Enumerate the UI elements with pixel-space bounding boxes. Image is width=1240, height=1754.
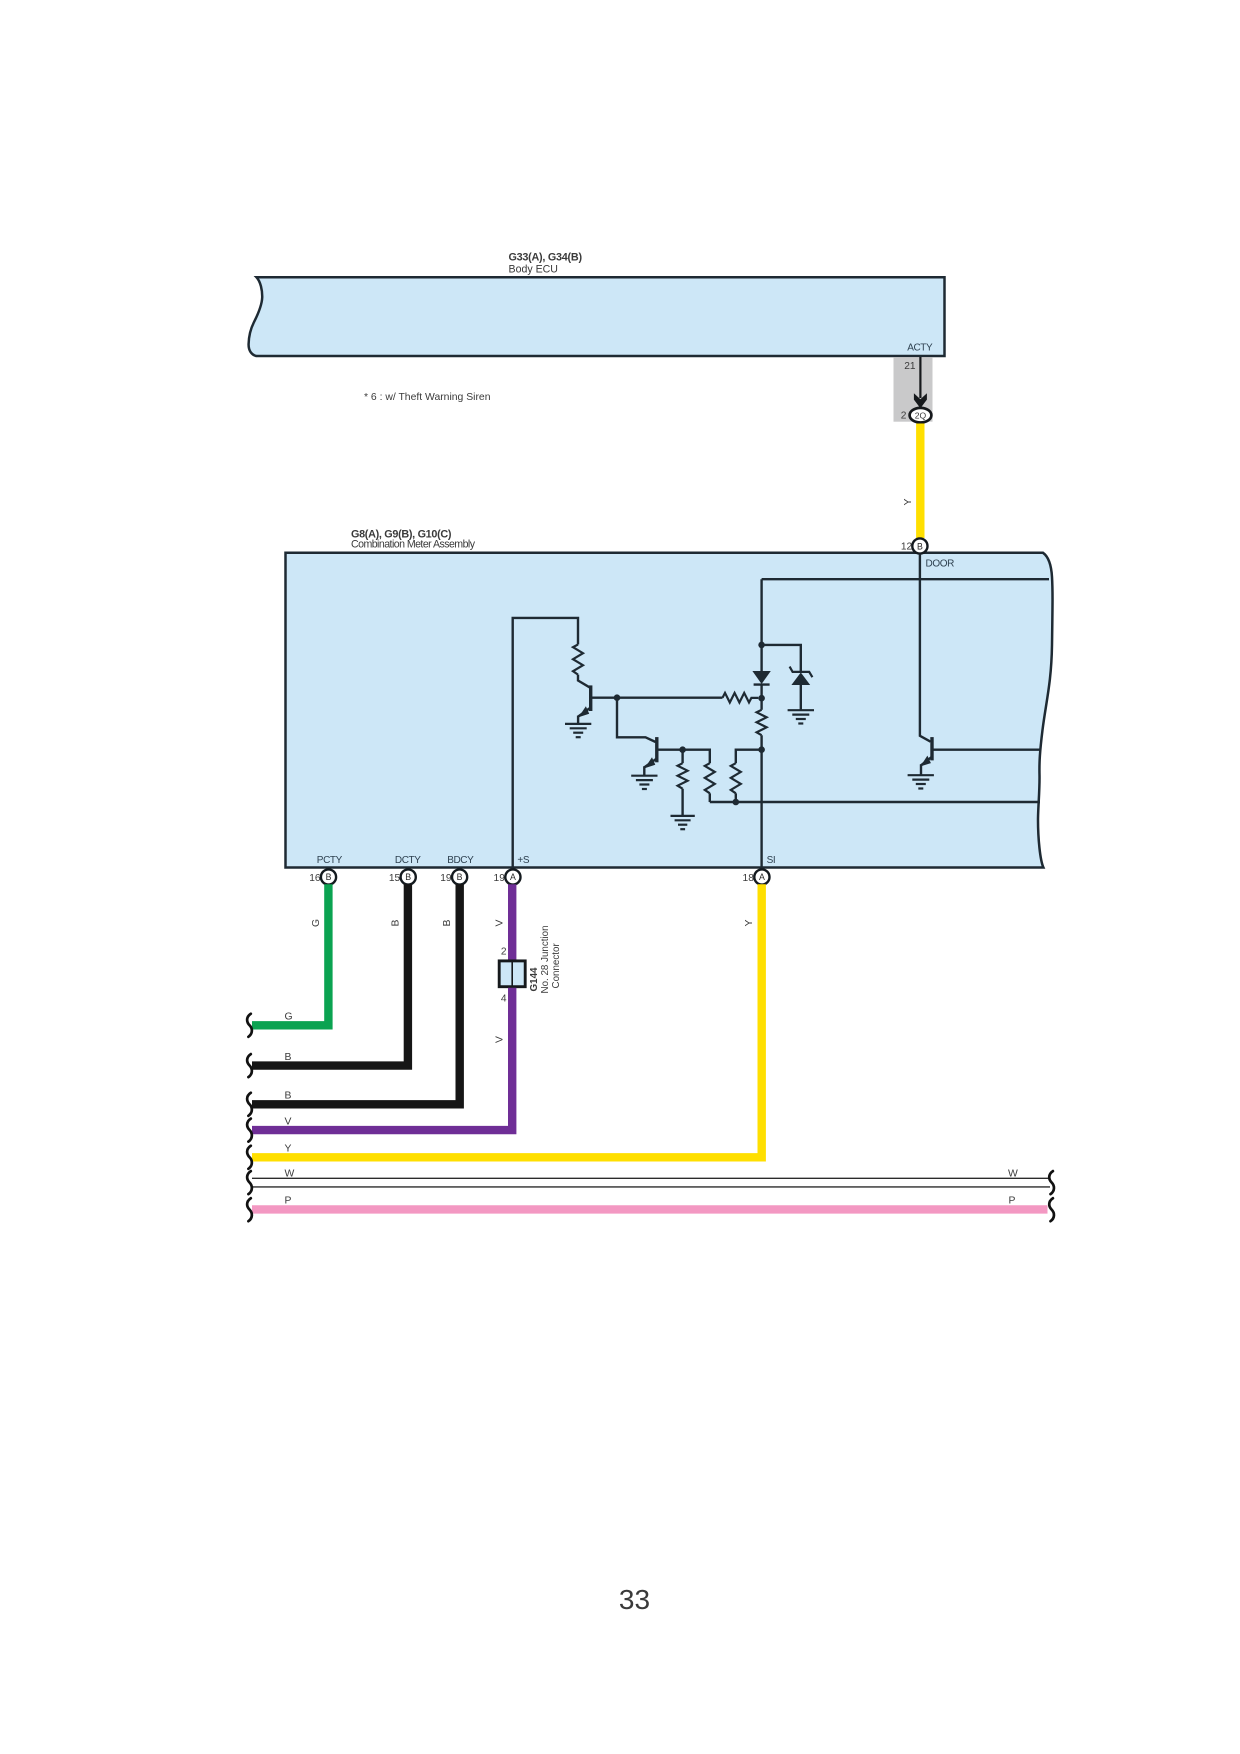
svg-text:B: B	[405, 872, 411, 882]
wire B (black) DCTY to left break	[252, 884, 408, 1065]
svg-text:No. 28 Junction: No. 28 Junction	[540, 925, 551, 993]
svg-text:+S: +S	[517, 855, 529, 866]
svg-text:B: B	[457, 872, 463, 882]
ground (Q3 emitter)	[908, 775, 934, 788]
svg-text:15: 15	[389, 873, 401, 884]
svg-text:33: 33	[619, 1584, 650, 1615]
svg-text:W: W	[1008, 1168, 1018, 1179]
ground (Q1 emitter)	[565, 724, 591, 737]
svg-text:ACTY: ACTY	[907, 342, 933, 353]
resistor R2 (to ground)	[678, 763, 688, 789]
wire V (violet) +S upper segment	[508, 884, 516, 959]
svg-text:Combination Meter Assembly: Combination Meter Assembly	[351, 539, 476, 551]
terminal 19(B) BDCY	[440, 869, 467, 884]
wire: node over to R3 top	[683, 750, 710, 764]
break squiggle (B wire 2)	[247, 1093, 252, 1116]
junction dot at SI/zener branch	[758, 642, 765, 649]
wire: base node down/over to Q2 collector	[617, 698, 656, 742]
svg-text:W: W	[285, 1168, 295, 1179]
svg-text:B: B	[390, 919, 401, 926]
ground (R2)	[671, 816, 695, 829]
svg-text:12: 12	[901, 541, 913, 552]
wire: 12(B) vertical into box down to Q3 collector	[920, 554, 931, 742]
svg-text:V: V	[495, 919, 506, 926]
break squiggle (Y wire)	[247, 1146, 252, 1169]
svg-text:B: B	[285, 1091, 292, 1102]
break squiggle (P wire right)	[1049, 1198, 1054, 1221]
svg-text:Connector: Connector	[551, 943, 562, 989]
svg-text:Body ECU: Body ECU	[509, 263, 558, 275]
wire: D1 cathode to dot	[760, 685, 762, 710]
wire: SI main vertical upper segment (corner at DOOR line)	[760, 579, 762, 671]
svg-text:P: P	[1009, 1195, 1016, 1206]
transistor Q2	[644, 737, 657, 776]
break squiggle (W wire right)	[1049, 1171, 1054, 1194]
Combination Meter box (cut-away right edge)	[286, 553, 1053, 868]
svg-text:B: B	[917, 541, 923, 551]
junction connector G144 box	[499, 961, 525, 987]
ground (Q2 emitter)	[631, 776, 657, 789]
break squiggle (V wire)	[247, 1119, 252, 1142]
diode D1 (pointing down)	[752, 671, 770, 684]
svg-text:SI: SI	[767, 855, 776, 866]
svg-text:DOOR: DOOR	[926, 559, 955, 570]
break squiggle (W wire left)	[247, 1171, 252, 1194]
junction dot Q2 base node	[679, 746, 686, 753]
wire Y (yellow) from 2Q down to meter 12(B)	[916, 424, 924, 539]
svg-text:Y: Y	[285, 1144, 292, 1155]
svg-text:B: B	[285, 1052, 292, 1063]
junction dot at D1 cathode / horizontal resistor	[758, 695, 765, 702]
ground (zener)	[788, 710, 814, 723]
junction dot R4/bus	[733, 799, 740, 806]
svg-text:Y: Y	[903, 498, 914, 505]
junction dot at R5 bottom	[758, 746, 765, 753]
arrowhead chevron	[914, 393, 927, 408]
svg-text:A: A	[510, 872, 516, 882]
svg-text:B: B	[326, 872, 332, 882]
svg-text:BDCY: BDCY	[447, 855, 474, 866]
terminal 16(B) PCTY	[309, 869, 336, 884]
connector shield gray block	[894, 357, 933, 422]
terminal 19(A) +S	[494, 869, 521, 884]
svg-text:2: 2	[901, 411, 907, 422]
wire: R1 bottom to Q1 collector	[578, 675, 590, 688]
wire: base node to horizontal resistor	[617, 697, 723, 699]
wire: Q3 base to cut edge	[932, 749, 1040, 751]
wire G (green) PCTY to left break	[252, 884, 328, 1025]
svg-text:4: 4	[501, 993, 507, 1004]
connector oval 2Q	[910, 408, 932, 423]
svg-text:2Q: 2Q	[915, 410, 927, 420]
break squiggle (B wire)	[247, 1054, 252, 1077]
wire P (pink)	[252, 1205, 1048, 1213]
wire Y (yellow) SI to left break	[252, 884, 762, 1157]
resistor Rh (horizontal, base node to SI node)	[723, 693, 759, 703]
svg-text:18: 18	[743, 873, 755, 884]
wire V (violet) lower segment to left break	[252, 988, 512, 1130]
wire: SI line mid segment	[760, 735, 762, 869]
zener diode D2 (pointing up, bent bar)	[790, 667, 813, 678]
svg-text:19: 19	[440, 873, 452, 884]
wire: +S line up and over to R1	[513, 618, 578, 870]
resistor R5 (on SI line)	[757, 710, 767, 735]
wire from ACTY pin 21 (vertical arrow line)	[919, 357, 921, 398]
Body ECU box (cut-away left edge)	[249, 277, 945, 356]
wire: R3 bottom corner into bus line	[709, 793, 711, 802]
wire B (black) BDCY to left break	[252, 884, 460, 1104]
svg-text:V: V	[285, 1116, 292, 1127]
wire W (white, outlined)	[252, 1178, 1050, 1187]
wire: DOOR horizontal line to cut edge	[762, 578, 1049, 580]
svg-text:G: G	[311, 919, 322, 927]
break squiggle (G wire)	[247, 1014, 252, 1037]
wire: R4 top to SI node	[736, 750, 762, 764]
svg-text:21: 21	[904, 361, 916, 372]
svg-text:G33(A), G34(B): G33(A), G34(B)	[509, 252, 583, 264]
svg-text:Y: Y	[744, 919, 755, 926]
svg-text:V: V	[495, 1036, 506, 1043]
svg-text:A: A	[759, 872, 765, 882]
svg-text:* 6 : w/ Theft Warning Siren: * 6 : w/ Theft Warning Siren	[364, 392, 491, 403]
terminal 18(A) SI	[743, 869, 770, 884]
connector circle 12(B)	[912, 538, 927, 553]
resistor R3	[705, 763, 715, 793]
transistor Q3 (door signal)	[920, 737, 932, 775]
wire: Q1 base to junction	[591, 697, 617, 699]
wire: bus line at y=802 to cut edge	[710, 801, 1040, 803]
wire: R2 bottom to ground	[681, 789, 683, 816]
wire: Q2 base to node	[657, 749, 683, 751]
transistor Q1	[578, 685, 591, 724]
break squiggle (P wire left)	[247, 1198, 252, 1221]
wire: node down to R2 top	[681, 750, 683, 764]
svg-text:DCTY: DCTY	[395, 855, 421, 866]
wire: zener anode down to ground	[800, 685, 802, 710]
svg-text:2: 2	[501, 947, 507, 958]
svg-text:G144: G144	[529, 967, 540, 992]
svg-text:PCTY: PCTY	[317, 855, 343, 866]
svg-text:16: 16	[309, 873, 321, 884]
svg-text:B: B	[442, 919, 453, 926]
svg-text:19: 19	[494, 873, 506, 884]
wire: branch to zener (from dot at 644.9)	[762, 645, 801, 672]
wire: R4 bottom to bus	[735, 793, 737, 802]
resistor R1 (collector load)	[573, 645, 583, 675]
junction dot Q1 base node	[614, 694, 621, 701]
svg-text:P: P	[285, 1195, 292, 1206]
terminal 15(B) DCTY	[389, 869, 416, 884]
svg-text:G: G	[285, 1012, 293, 1023]
resistor R4	[731, 763, 741, 793]
